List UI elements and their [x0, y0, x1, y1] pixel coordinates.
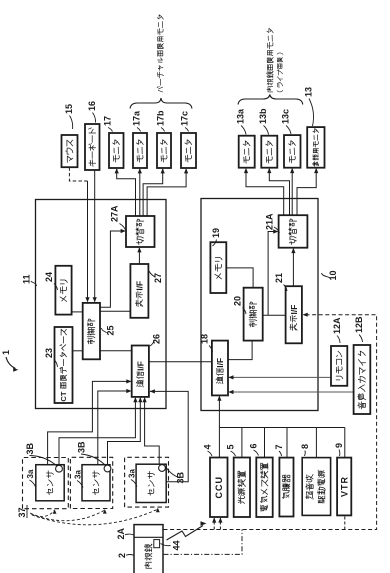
svg-text:6: 6 [249, 443, 259, 448]
bus branch to electric knife 6 [264, 428, 266, 458]
svg-text:15: 15 [64, 104, 74, 114]
monitor 13c box [284, 135, 301, 168]
memory 19 box [210, 242, 226, 293]
comm I/F 26 box [132, 346, 149, 397]
equipment bus trunk [219, 427, 344, 429]
monitor 17a box [133, 133, 147, 168]
display I/F 27 box [130, 264, 148, 318]
svg-text:25: 25 [106, 325, 116, 335]
bus branch to ultrasonic supply 8 [315, 428, 317, 458]
dash-dot line endoscope adaptor 44 to bus [164, 530, 243, 555]
sensor unit 3B-2 dashed box [70, 457, 112, 508]
svg-text:I/F: I/F [289, 305, 299, 315]
wire voice microphone 12B to comm I/F 18 [229, 391, 353, 393]
sensor connector circle 3B-3 [159, 465, 166, 472]
svg-text:17: 17 [103, 116, 113, 126]
dashed branch to CCU 4 (a) [213, 518, 215, 529]
wire switch 21A to monitor 13a [246, 169, 284, 216]
svg-text:4: 4 [203, 444, 213, 449]
svg-text:23: 23 [44, 348, 54, 358]
switch 21A box [279, 215, 308, 248]
svg-text:44: 44 [172, 540, 182, 550]
svg-text:3a: 3a [26, 469, 35, 478]
sensor connector circle 3B-1 [56, 465, 63, 472]
wire memory 19 to controller 20 [226, 268, 253, 288]
monitor 13b box [261, 136, 277, 168]
monitor 13a box [239, 136, 255, 168]
wire controller 25 to display I/F 27 [100, 310, 130, 312]
controller 25 box [83, 303, 100, 359]
sensor 3a-3 box [136, 464, 166, 502]
svg-text:18: 18 [200, 334, 210, 344]
memory 24 box [55, 266, 71, 315]
wire sensor connector 3B-3 to comm I/F 26 [145, 398, 160, 465]
svg-text:CCU: CCU [214, 476, 224, 499]
svg-text:3a: 3a [74, 470, 83, 479]
wire controller 20 to display I/F 21 [263, 314, 286, 316]
svg-text:9: 9 [334, 443, 344, 448]
svg-text:11: 11 [22, 274, 32, 284]
wire sensor 3 body to comm I/F 26 [150, 391, 188, 481]
wire switch 21A to reference monitor 13 [297, 169, 316, 216]
ultrasonic drive supply 8 box [302, 458, 330, 516]
bus branch to insufflator 7 [286, 428, 288, 458]
svg-text:12A: 12A [332, 317, 342, 334]
svg-text:20: 20 [233, 296, 243, 306]
svg-text:21: 21 [274, 273, 284, 283]
sensor 3a-1 box [36, 465, 64, 501]
wire controller 20 to comm I/F 18 [228, 341, 252, 360]
svg-text:I/F: I/F [215, 358, 225, 368]
wire sensor connector 3B-1 to comm I/F 26 [59, 398, 135, 466]
VTR 9 box [337, 458, 351, 516]
wire memory 24 to controller 25 [72, 311, 83, 313]
dashed branch to VTR 9 [344, 515, 346, 529]
display I/F 21 box [286, 286, 302, 343]
monitor 17b box [157, 133, 171, 168]
dashed arc 37 to sensor unit 3B-3 [32, 510, 157, 525]
svg-text:13c: 13c [281, 109, 291, 124]
svg-text:13b: 13b [258, 108, 268, 124]
svg-text:I/F: I/F [135, 361, 145, 371]
dashed path endoscope 2 to equipment group [164, 315, 377, 530]
svg-text:I/F: I/F [134, 281, 144, 291]
dashed arc 37 to sensor unit 3B-1 [30, 511, 54, 517]
label: virtual image monitors [157, 15, 163, 92]
svg-text:3a: 3a [128, 469, 137, 478]
svg-text:8: 8 [300, 444, 310, 449]
bus branch to CCU 4 [218, 428, 220, 458]
wire remote control 12A to comm I/F 18 [229, 376, 331, 378]
wire sensor 2 body to comm I/F 26 [98, 391, 131, 465]
svg-text:5: 5 [226, 444, 236, 449]
wire comm I/F 18 to equipment bus [218, 396, 220, 427]
svg-text:2: 2 [117, 553, 127, 558]
wire comm I/F 26 to comm I/F 18 link [149, 361, 212, 363]
bus branch to light source 5 [241, 428, 243, 458]
monitor 17 box [109, 133, 124, 168]
wire switch 27A to monitor 17c [147, 169, 186, 216]
brace for monitors 13a-13c [238, 95, 303, 105]
svg-text:VTR: VTR [339, 476, 349, 497]
svg-text:21A: 21A [265, 213, 275, 230]
wire mouse 15 to controller 25 (dash-dot then solid) [69, 167, 87, 181]
wire switch 27A to monitor 17a [139, 169, 141, 216]
brace for monitors 17a-17c [130, 98, 192, 109]
svg-text:7: 7 [274, 444, 284, 449]
light source 5 box [234, 458, 250, 518]
bus branch to VTR 9 [344, 428, 346, 458]
sensor connector circle 3B-2 [104, 465, 111, 472]
svg-text:27: 27 [153, 273, 163, 283]
endoscope 2 box [134, 525, 163, 573]
svg-text:17b: 17b [156, 110, 166, 126]
wire switch 21A to monitor 13b [269, 169, 289, 216]
CT image database 23 box [55, 327, 73, 403]
svg-text:13: 13 [304, 87, 314, 97]
svg-text:16: 16 [87, 101, 97, 111]
insufflator 7 box [279, 458, 293, 517]
controller 20 box [244, 288, 263, 341]
svg-text:24: 24 [44, 272, 54, 282]
label: endoscope image monitors (live image) [267, 28, 274, 92]
svg-text:19: 19 [211, 228, 221, 238]
sensor unit 3B-1 dashed box [23, 458, 69, 509]
wire display I/F 27 to switch 27A [138, 248, 140, 264]
reference monitor 13 box [307, 127, 324, 168]
zigzag arrow endoscope 2 to CCU 4 [167, 526, 204, 541]
wire CT database 23 to controller 25 [73, 350, 83, 352]
wire controller 25 to comm I/F 26 [100, 350, 132, 352]
svg-text:13a: 13a [236, 108, 246, 124]
adaptor 44 small box [154, 540, 160, 548]
remote control 12A box [331, 346, 347, 386]
svg-text:3B: 3B [77, 441, 87, 453]
wire sensor connector 3B-2 to comm I/F 26 [108, 398, 141, 465]
svg-text:27A: 27A [110, 205, 120, 222]
svg-text:2A: 2A [116, 527, 126, 539]
monitor 17c box [181, 133, 196, 168]
arrow from label 1 to system 11 [6, 357, 16, 369]
svg-text:3B: 3B [25, 442, 35, 454]
wire switch 27A to monitor 17 [117, 169, 136, 216]
wire sensor 1 body to comm I/F 26 [48, 381, 131, 464]
dashed arc 37 to sensor unit 3B-2 [31, 511, 104, 521]
wire switch 27A to monitor 17b [143, 169, 163, 216]
wire switch 21A to monitor 13c [291, 169, 293, 216]
mouse 15 box [62, 135, 78, 167]
svg-text:12B: 12B [354, 316, 364, 333]
endoscope distal section divider 2A [134, 536, 163, 538]
switch 27A box [126, 216, 155, 247]
wire display I/F 21 to switch 21A [292, 249, 294, 287]
wire keyboard 16 to controller 25 [94, 170, 96, 302]
system box 11 (virtual image generation unit) [36, 200, 167, 409]
wire controller 25 to switch 27A [100, 231, 125, 307]
svg-text:CT: CT [59, 391, 68, 401]
svg-text:37: 37 [17, 507, 27, 517]
voice input microphone 12B box [354, 345, 371, 414]
sensor unit 3B-3 dashed box [125, 457, 169, 507]
comm I/F 18 box [212, 341, 228, 396]
wire controller 20 to switch 21A [268, 232, 278, 316]
dashed branch to CCU 4 (b) [219, 518, 221, 529]
svg-text:17a: 17a [132, 110, 142, 126]
system box 10 (endoscope observation unit) [201, 199, 318, 411]
electric knife 6 box [256, 458, 272, 518]
svg-text:10: 10 [328, 270, 338, 280]
svg-text:3B: 3B [176, 471, 186, 483]
svg-text:1: 1 [1, 350, 11, 355]
CCU 4 box [210, 458, 228, 518]
svg-text:17c: 17c [180, 111, 190, 126]
sensor 3a-2 box [82, 465, 110, 501]
keyboard 16 box [85, 124, 100, 170]
